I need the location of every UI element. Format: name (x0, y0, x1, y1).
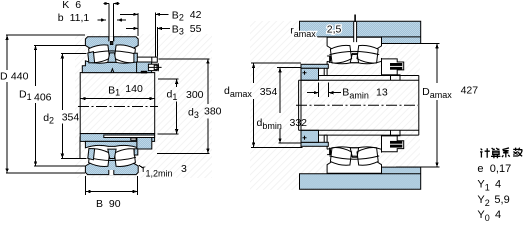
dim D arrows (5, 35, 8, 173)
header 数 (drawn strokes) (513, 148, 522, 157)
dim d_amax lines (251, 63, 302, 147)
dim d3 arrows (206, 59, 209, 153)
inner ring boundary right view (327, 58, 381, 76)
dim B3 lines (126, 27, 170, 57)
svg-text:b: b (58, 12, 64, 24)
oil supply line (354, 15, 356, 23)
dim d2 arrows (61, 54, 64, 159)
header 计 (drawn strokes) (480, 148, 490, 158)
dim B1 line (81, 98, 155, 100)
dim B3 arrows (133, 27, 162, 30)
shaft left end face (298, 80, 300, 105)
groove bottom (109, 170, 114, 175)
oil cross mark (303, 71, 307, 75)
dim B2 arrows (133, 13, 160, 16)
svg-text:140: 140 (125, 83, 143, 95)
dim D1 lines (34, 45, 86, 166)
roller row 2 right (114, 149, 135, 167)
svg-text:e: e (477, 163, 483, 175)
roller row 1 left (89, 45, 110, 63)
svg-text:4: 4 (495, 179, 501, 191)
lubrication hole (110, 41, 113, 44)
outer ring top half (85, 37, 138, 54)
extension line abutment face (300, 80, 302, 148)
lock nut bottom half (137, 138, 152, 150)
centre guide flange top (108, 53, 116, 62)
svg-text:6: 6 (75, 0, 81, 11)
sleeve slit notch (111, 69, 114, 73)
svg-text:13: 13 (376, 87, 388, 99)
svg-text:55: 55 (190, 23, 202, 35)
cage pocket left (88, 52, 95, 63)
sleeve washer zone right (137, 57, 157, 62)
centre axis left view (78, 106, 158, 108)
dim d1 arrows (175, 79, 178, 134)
dim B_amin arrows (314, 91, 334, 94)
sleeve bottom flange band (80, 134, 154, 142)
inner ring left face steps (327, 56, 330, 63)
roller row 1 right (114, 45, 135, 63)
dim d_amax arrows (252, 63, 255, 147)
dim d3 lines (157, 59, 210, 153)
shaft right end face (418, 76, 420, 106)
background hatch left view (75, 34, 212, 178)
dim d1 lines (158, 79, 179, 134)
svg-text:B: B (96, 198, 103, 210)
lubrication groove W33 (109, 36, 114, 41)
roller right view right (357, 45, 378, 63)
svg-text:D: D (0, 71, 8, 83)
svg-text:380: 380 (204, 106, 222, 118)
adapter sleeve body rectangle (80, 73, 155, 134)
svg-text:90: 90 (109, 198, 121, 210)
cage pocket bottom left (88, 149, 95, 160)
outer ring bottom half (85, 158, 138, 175)
sleeve end gap lines (319, 68, 328, 80)
housing bore line over shoulder (382, 36, 421, 38)
dim B_amin lines (307, 83, 341, 98)
centre flange right view (350, 53, 358, 62)
sleeve surface line (319, 75, 419, 77)
lock washer tab (148, 64, 157, 70)
cage bar arc bottom half (88, 157, 137, 160)
svg-text:354: 354 (62, 112, 80, 124)
dim B2 lines (120, 13, 169, 58)
svg-text:406: 406 (34, 91, 52, 103)
svg-text:332: 332 (290, 117, 308, 129)
cage bar arc top half (88, 51, 137, 54)
dim d_bmin lines (277, 68, 302, 144)
washer tang strip (134, 149, 138, 155)
roller right view left (330, 45, 351, 63)
housing block top (300, 21, 421, 43)
svg-text:42: 42 (190, 9, 202, 21)
background hatch right view (250, 21, 420, 190)
roller row 2 left (89, 149, 110, 167)
washer notch bottom (131, 138, 136, 140)
bearing outline top half (327, 37, 381, 54)
centre guide flange bottom (108, 149, 116, 158)
svg-text:5,9: 5,9 (494, 194, 509, 206)
dim B lines (86, 176, 138, 195)
abutment ring lip (301, 64, 328, 68)
dim d_bmin arrows (278, 68, 281, 144)
svg-text:2,5: 2,5 (327, 23, 342, 35)
shaft surface line (299, 79, 419, 81)
abutment ring (301, 68, 319, 80)
dim d2 lines (61, 54, 87, 159)
svg-text:440: 440 (11, 71, 29, 83)
svg-text:300: 300 (186, 89, 204, 101)
dim B arrows (86, 190, 138, 193)
svg-text:K: K (62, 0, 69, 11)
sleeve end below nut (382, 75, 401, 80)
washer inner tab (141, 71, 147, 74)
lock washer glyph right view (390, 63, 402, 70)
inner ring and sleeve top half (82, 61, 142, 73)
dim D_amax lines (396, 44, 440, 168)
dim D_amax arrows (435, 44, 438, 168)
washer tang strip top (134, 53, 137, 62)
dim D lines (6, 35, 85, 173)
svg-text:11,1: 11,1 (70, 12, 90, 24)
washer zone slot bottom (104, 135, 155, 138)
r leader line (139, 165, 143, 168)
dim K arrows (104, 2, 118, 5)
lock nut top half (137, 62, 152, 73)
svg-text:3: 3 (181, 163, 187, 175)
centre axis right view (296, 104, 418, 106)
locking screw head (154, 65, 158, 69)
locking screw cross (148, 63, 161, 71)
svg-text:427: 427 (461, 85, 479, 97)
cage arc right view (329, 51, 379, 54)
header 算 (drawn strokes) (491, 148, 500, 158)
dim b lines (98, 19, 127, 21)
dim b arrows (101, 18, 122, 21)
svg-text:0,17: 0,17 (490, 163, 511, 175)
mirrored bottom half of right view (299, 105, 421, 189)
dim B1 arrows (81, 97, 155, 100)
extension line sleeve left edge (79, 137, 81, 159)
oil hole slot (354, 22, 357, 42)
svg-text:4: 4 (495, 209, 501, 221)
inner ring and sleeve bottom half (85, 141, 138, 147)
dim D1 arrows (34, 45, 37, 166)
dim K lines (104, 4, 120, 42)
header 系 (drawn strokes) (502, 148, 510, 158)
nut right view (382, 59, 404, 75)
svg-text:354: 354 (260, 86, 278, 98)
